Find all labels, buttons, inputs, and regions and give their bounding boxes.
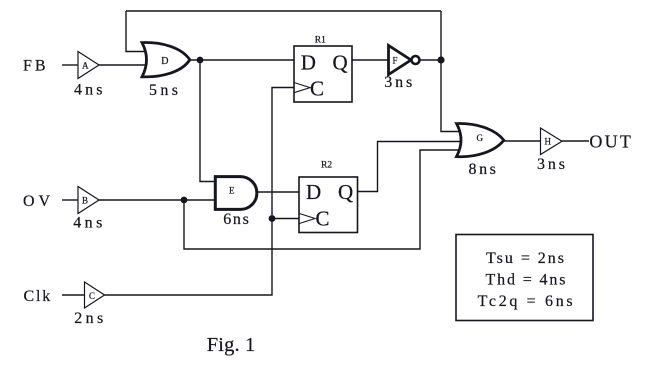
or-gate G — [457, 124, 504, 157]
and-gate E — [215, 177, 257, 210]
svg-text:OUT: OUT — [589, 132, 631, 152]
svg-text:R2: R2 — [321, 161, 332, 171]
svg-text:C: C — [310, 77, 324, 101]
svg-text:2ns: 2ns — [74, 310, 103, 327]
wire Clk input lead — [62, 294, 85, 296]
wire feedback net: left vertical down into OR gate D top input — [126, 11, 150, 52]
wire R1 Q output to inverter F — [352, 59, 389, 61]
svg-text:D: D — [306, 180, 321, 204]
timing parameter box — [456, 235, 593, 321]
clock triangle of R2 — [299, 213, 315, 223]
wire FB input lead — [62, 64, 78, 66]
svg-text:4ns: 4ns — [74, 82, 103, 99]
buffer H — [541, 128, 563, 155]
wire inverter F output to feedback node — [420, 59, 442, 61]
wire AND gate E output to R2 D input — [256, 191, 299, 193]
svg-text:Fig. 1: Fig. 1 — [207, 334, 256, 356]
svg-text:3ns: 3ns — [537, 156, 565, 173]
wire feedback net: right vertical down to OR gate G top input — [441, 11, 462, 132]
wire OR gate G output to buffer H — [503, 140, 541, 142]
node junction after gate D — [197, 57, 204, 64]
clock triangle of R1 — [294, 83, 310, 93]
wire clock branch to R2 C clock input — [272, 218, 299, 220]
wire OV input lead — [62, 199, 78, 201]
svg-text:Q: Q — [338, 180, 353, 204]
flip-flop R1 box — [294, 46, 352, 102]
svg-text:F: F — [393, 55, 398, 65]
inverter F — [389, 46, 412, 75]
wire buffer H output to OUT — [562, 140, 589, 142]
svg-text:4ns: 4ns — [73, 215, 102, 232]
wire buffer A output to OR gate D input — [99, 64, 150, 66]
svg-text:FB: FB — [23, 58, 46, 75]
svg-text:R1: R1 — [315, 36, 326, 46]
inverter F bubble — [412, 56, 420, 64]
wire OR gate D output to R1 D input — [189, 59, 294, 61]
svg-text:C: C — [316, 207, 330, 231]
svg-text:5ns: 5ns — [149, 82, 178, 99]
buffer C — [85, 282, 105, 308]
wire node after gate D down to AND gate E top input — [200, 60, 217, 182]
wire feedback net: top horizontal from above gate D to right vertical — [126, 10, 441, 12]
svg-text:A: A — [82, 60, 89, 70]
svg-text:E: E — [229, 186, 235, 196]
or-gate D — [142, 43, 190, 77]
svg-text:D: D — [301, 51, 316, 75]
node clock junction — [269, 215, 276, 222]
svg-text:D: D — [161, 56, 168, 67]
svg-text:Clk: Clk — [24, 288, 51, 305]
node junction on OV line — [181, 197, 188, 204]
wire buffer C output across and up to R1 C clock input — [105, 88, 295, 296]
svg-text:B: B — [82, 195, 88, 205]
svg-text:3ns: 3ns — [384, 74, 412, 91]
buffer B — [78, 187, 99, 214]
svg-text:6ns: 6ns — [223, 211, 249, 228]
svg-text:8ns: 8ns — [469, 161, 496, 178]
svg-text:H: H — [545, 136, 552, 146]
svg-text:Thd = 4ns: Thd = 4ns — [486, 272, 566, 289]
svg-text:Q: Q — [333, 51, 348, 75]
wire OV node down and across to OR gate G bottom input — [184, 150, 460, 249]
flip-flop R2 box — [299, 177, 358, 233]
wire R2 Q output up to OR gate G middle input — [358, 142, 461, 192]
wire buffer B output to AND gate E lower input — [99, 199, 217, 201]
svg-text:C: C — [89, 291, 95, 301]
svg-text:G: G — [477, 133, 484, 143]
node feedback junction after inverter F — [437, 56, 444, 63]
svg-text:Tsu = 2ns: Tsu = 2ns — [486, 250, 564, 267]
buffer A — [78, 52, 99, 79]
